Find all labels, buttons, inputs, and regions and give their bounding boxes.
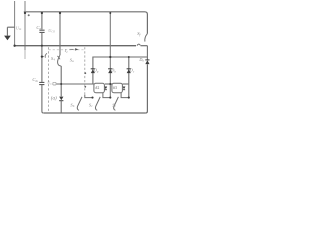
diode Dn bar bbox=[145, 59, 149, 61]
bus H2 right end bbox=[141, 45, 148, 47]
column 0 wire to rail bbox=[60, 101, 62, 113]
bus H3 with column1 corner bbox=[93, 57, 147, 84]
node stub from C-branch bbox=[42, 56, 44, 58]
svg-text:Db: Db bbox=[110, 68, 116, 74]
diode Db triangle bbox=[108, 69, 112, 73]
junction dot L1 bbox=[91, 97, 93, 99]
dash node mark bbox=[84, 72, 86, 74]
wire V2 second source rail bbox=[24, 1, 26, 50]
column 2 full wire from H1 bbox=[109, 12, 111, 98]
dashed boundary 1 bbox=[48, 47, 50, 111]
wire H5 right segment bbox=[123, 83, 129, 85]
column 3 wire bbox=[128, 57, 130, 98]
junction dot L3 bbox=[128, 97, 130, 99]
switch Sf blade bbox=[145, 34, 148, 42]
capacitor C1 plates bbox=[39, 82, 44, 84]
capacitor C0 branch lower to H2 bbox=[41, 32, 43, 45]
svg-text:Dc: Dc bbox=[129, 68, 135, 74]
junction dot H5-col0 bbox=[60, 83, 62, 85]
bottom rail bbox=[44, 112, 146, 114]
svg-text:Da: Da bbox=[93, 68, 99, 74]
column 0 wire below T1 bbox=[60, 66, 62, 96]
junction dot H2-V1 bbox=[13, 45, 15, 47]
junction dot L2 bbox=[109, 97, 111, 99]
switch T1 blade bbox=[58, 55, 62, 66]
diode Dc triangle bbox=[127, 69, 131, 73]
top bus H1 with right corner into right rail bbox=[24, 12, 148, 34]
svg-text:#3: #3 bbox=[113, 86, 117, 90]
svg-text:Sb: Sb bbox=[70, 102, 74, 108]
svg-text:C0: C0 bbox=[36, 25, 41, 31]
junction dot H1-V4 bbox=[59, 12, 61, 14]
switch T1 right contact curl bbox=[57, 56, 60, 59]
switch blade 2 bbox=[95, 97, 100, 110]
module 2 diode mark bbox=[123, 87, 126, 90]
stub L1 bbox=[85, 95, 93, 98]
switch Sa left contact arc bbox=[45, 53, 47, 57]
ground wire bbox=[7, 27, 14, 35]
svg-text:Uin: Uin bbox=[16, 25, 22, 31]
svg-text:Sf: Sf bbox=[137, 31, 141, 37]
left branch: wire below H2 to node bbox=[41, 46, 43, 57]
switch blade 3 bbox=[114, 97, 119, 110]
junction dot H3-col3 bbox=[128, 56, 130, 58]
junction dot H2-C0 bbox=[41, 45, 43, 47]
svg-text:Sc: Sc bbox=[89, 102, 93, 108]
diode D0 triangle bbox=[59, 97, 63, 101]
module 1 diode mark bbox=[104, 87, 107, 90]
tiny gate box on H5 left end bbox=[53, 82, 56, 85]
capacitor C0 branch upper bbox=[41, 12, 43, 30]
stub L3 bbox=[121, 93, 129, 98]
right rail lower with corner bbox=[146, 64, 148, 113]
svg-text:Sa: Sa bbox=[70, 57, 74, 63]
junction dot H1-V2 bbox=[24, 12, 26, 14]
junction dot H1-col2 bbox=[109, 12, 111, 14]
diode Da bar bbox=[91, 68, 95, 70]
svg-text:Sc: Sc bbox=[112, 102, 116, 108]
switch Sf contact bump on H2 bbox=[137, 44, 140, 46]
diode D0 bar bbox=[59, 100, 63, 102]
capacitor C0 plates bbox=[39, 30, 44, 32]
diode Da triangle bbox=[91, 69, 95, 73]
wire V2 fading tail bbox=[24, 50, 26, 59]
diode Db bar bbox=[108, 68, 112, 70]
junction dot H5-col2 bbox=[109, 83, 111, 85]
bus H2 bbox=[15, 45, 136, 47]
junction node dot bbox=[41, 55, 43, 57]
svg-text:Cin: Cin bbox=[32, 77, 38, 83]
switch blade 1 bbox=[77, 97, 82, 110]
svg-text:I1: I1 bbox=[64, 48, 69, 54]
wire node to capacitor C1 bbox=[41, 57, 43, 82]
junction dot H1-C0 bbox=[41, 12, 43, 14]
current arrow line bbox=[70, 48, 74, 50]
wire H5 left segment bbox=[56, 83, 94, 85]
svg-text:UC0: UC0 bbox=[48, 28, 55, 34]
junction dot H3-col2 bbox=[109, 56, 111, 58]
dashed boundary top bbox=[49, 49, 85, 51]
current arrowhead bbox=[75, 48, 79, 50]
module box 1 bbox=[94, 83, 105, 92]
dashed boundary 2 bbox=[84, 47, 86, 94]
svg-text:S4: S4 bbox=[51, 56, 55, 62]
small dot near bus bbox=[28, 14, 30, 16]
wire H5 mid segment bbox=[105, 83, 113, 85]
wire V1 left source rail bbox=[14, 1, 16, 45]
ground symbol bbox=[4, 36, 11, 41]
wire V4 T-branch from H1 bbox=[59, 12, 61, 55]
diode Dc bar bbox=[127, 68, 131, 70]
svg-text:#2: #2 bbox=[95, 86, 99, 90]
svg-text:Dn: Dn bbox=[138, 57, 144, 63]
stub L2 bbox=[103, 93, 110, 98]
right rail from H2 to diode Dn bbox=[146, 46, 148, 60]
wire capacitor C1 to bottom rail corner bbox=[42, 85, 44, 113]
diode Dn triangle bbox=[145, 60, 149, 64]
svg-text:(a): (a) bbox=[51, 96, 57, 101]
module box 2 bbox=[112, 83, 123, 92]
